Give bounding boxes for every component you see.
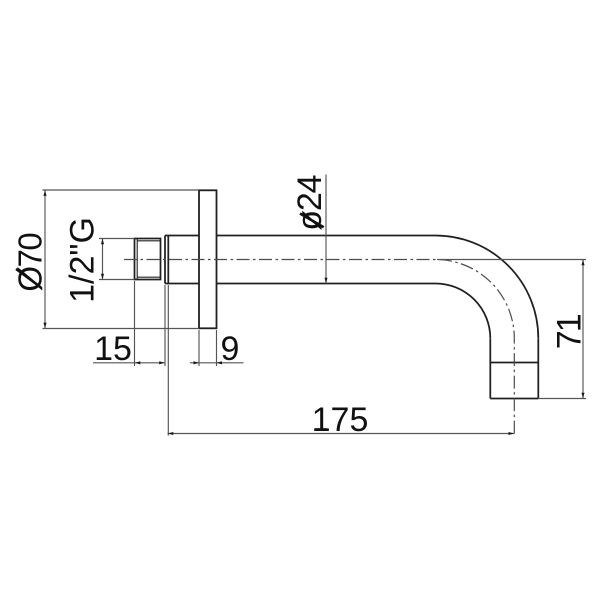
dim 71: top extension line bbox=[437, 259, 586, 261]
dim o24: extended slash of the o glyph bbox=[300, 214, 324, 228]
svg-text:175: 175 bbox=[312, 401, 369, 439]
dim 71: dimension line bbox=[582, 260, 584, 399]
dim 1/2"G: top arrow bbox=[101, 239, 104, 245]
dim 15: foot serif of digit 1 bbox=[98, 357, 110, 360]
dim 71: bottom extension line bbox=[538, 398, 586, 400]
vertical tube outlet bbox=[490, 338, 538, 398]
threaded nipple 1/2"G bbox=[135, 239, 161, 280]
svg-text:Ø70: Ø70 bbox=[12, 233, 49, 292]
dim 175: right arrow bbox=[509, 432, 515, 435]
spout tube end face (collar) bbox=[165, 236, 168, 284]
tube bend outer arc bbox=[436, 236, 539, 339]
dim 9: right extension line bbox=[216, 330, 218, 366]
svg-text:15: 15 bbox=[94, 330, 132, 368]
dim O70: top arrow bbox=[43, 190, 46, 196]
dim O70: extended slash of the O glyph bbox=[16, 269, 41, 288]
dim O70: bottom extension line bbox=[43, 328, 200, 330]
dim 15: dimension line bbox=[93, 362, 165, 364]
horizontal tube (right of flange) bbox=[217, 236, 436, 284]
centerline horizontal + bend + vertical (dash-dot) bbox=[124, 260, 514, 434]
dim 1/2"G: top extension line bbox=[99, 238, 135, 240]
dim O70: dimension line bbox=[44, 190, 46, 329]
dim 15: right extension line bbox=[164, 285, 166, 366]
dim 15: left arrow bbox=[135, 361, 141, 364]
dim 9: left arrow (outside, pointing right) bbox=[194, 361, 200, 364]
dim 1/2"G: bottom extension line bbox=[99, 279, 135, 281]
dim 9: right arrow (outside, pointing left) bbox=[217, 361, 223, 364]
dim 15: right arrow bbox=[159, 361, 165, 364]
dim 175: left extension line (long) bbox=[167, 285, 169, 436]
dim 15: left extension line bbox=[134, 281, 136, 366]
dim 9: left extension line bbox=[198, 330, 200, 366]
svg-text:ø24: ø24 bbox=[291, 175, 329, 230]
dim 71: bottom arrow bbox=[581, 393, 584, 399]
dim 175: dimension line bbox=[168, 433, 515, 435]
dim 71: top arrow bbox=[581, 260, 584, 266]
wall flange plate (side view) bbox=[199, 190, 217, 328]
dim 1/2"G: foot serif of digit 1 bbox=[91, 288, 94, 300]
dim 9: dimension line bbox=[190, 362, 244, 364]
svg-text:1/2"G: 1/2"G bbox=[64, 217, 102, 303]
tube bend inner arc bbox=[436, 284, 491, 339]
dim 175: left arrow bbox=[168, 432, 174, 435]
dim o24: bottom arrow bbox=[324, 278, 327, 284]
dim 175: foot serif of digit 1 bbox=[315, 428, 327, 431]
dim O70: top extension line bbox=[43, 189, 200, 191]
dim O70: bottom arrow bbox=[43, 323, 46, 329]
dim 71: foot serif of digit 1 bbox=[578, 316, 581, 328]
dim 1/2"G: dimension line bbox=[102, 239, 104, 280]
svg-text:71: 71 bbox=[551, 314, 589, 349]
svg-text:9: 9 bbox=[221, 330, 240, 368]
horizontal tube (left of flange) bbox=[165, 236, 199, 284]
dim 1/2"G: bottom arrow bbox=[101, 274, 104, 280]
dim o24: leader line across tube bbox=[325, 175, 327, 284]
